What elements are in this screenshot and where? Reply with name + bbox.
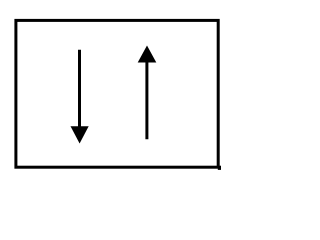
up arrow (138, 46, 157, 140)
box corner nub (bottom-right) (218, 166, 221, 170)
down arrow (71, 50, 89, 144)
box (16, 20, 218, 167)
